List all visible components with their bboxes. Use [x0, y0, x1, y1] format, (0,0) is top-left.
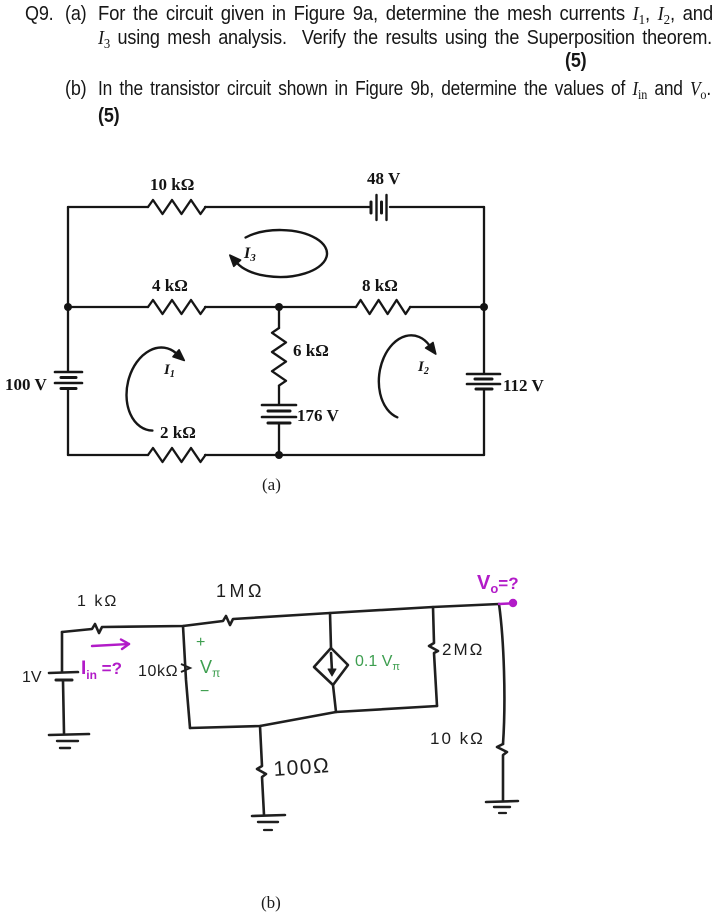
svg-text:−: −	[200, 683, 209, 700]
svg-text:(a): (a)	[262, 475, 281, 494]
svg-text:1 kΩ: 1 kΩ	[77, 593, 118, 610]
svg-text:10 kΩ: 10 kΩ	[430, 729, 485, 748]
svg-text:10 kΩ: 10 kΩ	[150, 175, 194, 194]
svg-text:4 kΩ: 4 kΩ	[152, 276, 188, 295]
svg-text:2 kΩ: 2 kΩ	[160, 423, 196, 442]
svg-text:(b): (b)	[261, 893, 281, 912]
svg-text:176 V: 176 V	[297, 406, 339, 425]
svg-text:Vπ: Vπ	[200, 657, 220, 680]
svg-text:10kΩ: 10kΩ	[138, 663, 178, 680]
svg-text:48 V: 48 V	[367, 169, 401, 188]
svg-text:1MΩ: 1MΩ	[216, 581, 265, 601]
svg-text:100Ω: 100Ω	[273, 754, 331, 781]
svg-text:0.1 Vπ: 0.1 Vπ	[355, 653, 400, 673]
svg-text:I1: I1	[163, 362, 175, 380]
svg-text:+: +	[196, 634, 205, 651]
svg-text:I2: I2	[417, 359, 429, 377]
svg-text:Vo=?: Vo=?	[477, 572, 519, 596]
svg-text:Iin =?: Iin =?	[81, 658, 122, 682]
svg-text:2MΩ: 2MΩ	[442, 640, 484, 659]
svg-text:I3: I3	[243, 245, 256, 264]
svg-text:6 kΩ: 6 kΩ	[293, 341, 329, 360]
svg-text:112 V: 112 V	[503, 376, 545, 395]
svg-text:100 V: 100 V	[5, 375, 47, 394]
svg-text:8 kΩ: 8 kΩ	[362, 276, 398, 295]
svg-text:1V: 1V	[22, 669, 42, 686]
